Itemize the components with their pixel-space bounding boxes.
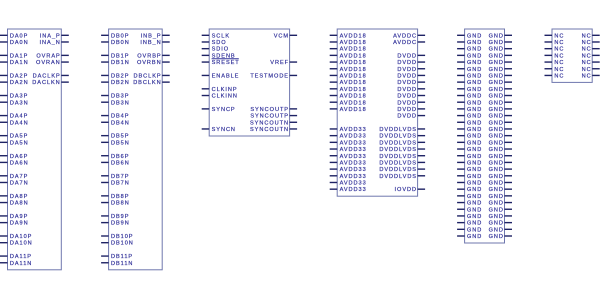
pin INA_P (right row 0) + wire stub bbox=[40, 33, 69, 39]
pin DA4P (left row 12) + wire stub bbox=[0, 114, 28, 120]
svg-text:DB2P: DB2P bbox=[111, 73, 129, 79]
svg-text:INB_N: INB_N bbox=[140, 40, 161, 46]
svg-text:DA9P: DA9P bbox=[10, 214, 28, 220]
svg-text:GND: GND bbox=[467, 67, 482, 73]
svg-text:GND: GND bbox=[467, 214, 482, 220]
svg-text:DA6N: DA6N bbox=[10, 160, 29, 166]
svg-text:GND: GND bbox=[489, 207, 504, 213]
svg-text:AVDD33: AVDD33 bbox=[340, 147, 367, 153]
svg-text:GND: GND bbox=[467, 221, 482, 227]
pin SYNCOUTP (right row 11) + wire stub bbox=[250, 107, 297, 113]
svg-text:DVDD: DVDD bbox=[397, 87, 417, 93]
svg-text:DB4P: DB4P bbox=[111, 114, 129, 120]
svg-text:DA1P: DA1P bbox=[10, 53, 28, 59]
svg-text:DA10N: DA10N bbox=[10, 241, 33, 247]
pin NC (left row 5) + wire stub bbox=[545, 67, 565, 73]
pin DVDD (right row 8) + wire stub bbox=[397, 87, 425, 93]
pin OVRBP (right row 3) + wire stub bbox=[137, 53, 169, 59]
pin DA8P (left row 24) + wire stub bbox=[0, 194, 28, 200]
svg-text:DB2N: DB2N bbox=[111, 80, 130, 86]
svg-text:DBCLKP: DBCLKP bbox=[134, 73, 162, 79]
pin SDENB (left row 3) + wire stub bbox=[202, 53, 236, 59]
pin DB2N (left row 7) + wire stub bbox=[101, 80, 130, 86]
pin GND (right row 25) + wire stub bbox=[489, 201, 512, 207]
svg-text:AVDD33: AVDD33 bbox=[340, 167, 367, 173]
svg-text:AVDD18: AVDD18 bbox=[340, 60, 367, 66]
pin GND (left row 10) + wire stub bbox=[457, 100, 482, 106]
svg-text:GND: GND bbox=[467, 154, 482, 160]
pin GND (left row 9) + wire stub bbox=[457, 94, 482, 100]
svg-text:GND: GND bbox=[489, 53, 504, 59]
svg-text:NC: NC bbox=[554, 47, 564, 53]
svg-text:AVDD18: AVDD18 bbox=[340, 107, 367, 113]
svg-text:DVDD: DVDD bbox=[397, 73, 417, 79]
svg-text:DVDDLVDS: DVDDLVDS bbox=[379, 134, 417, 140]
svg-text:NC: NC bbox=[554, 33, 564, 39]
svg-text:DB3P: DB3P bbox=[111, 94, 129, 100]
svg-text:GND: GND bbox=[489, 127, 504, 133]
IC body U1E ground bbox=[465, 29, 505, 243]
pin AVDD18 (left row 5) + wire stub bbox=[330, 67, 367, 73]
pin DB4P (left row 12) + wire stub bbox=[101, 114, 129, 120]
svg-text:GND: GND bbox=[489, 140, 504, 146]
pin AVDD18 (left row 11) + wire stub bbox=[330, 107, 367, 113]
pin AVDD33 (left row 22) + wire stub bbox=[330, 181, 367, 187]
svg-text:DB8N: DB8N bbox=[111, 201, 130, 207]
pin GND (left row 18) + wire stub bbox=[457, 154, 482, 160]
svg-text:DVDDLVDS: DVDDLVDS bbox=[379, 127, 417, 133]
svg-text:GND: GND bbox=[467, 33, 482, 39]
IC body U1A data port A bbox=[8, 29, 62, 270]
pin GND (right row 26) + wire stub bbox=[489, 207, 512, 213]
pin GND (right row 12) + wire stub bbox=[489, 114, 512, 120]
pin SYNCP (left row 11) + wire stub bbox=[202, 107, 236, 113]
pin GND (left row 20) + wire stub bbox=[457, 167, 482, 173]
pin GND (left row 11) + wire stub bbox=[457, 107, 482, 113]
svg-text:GND: GND bbox=[489, 234, 504, 240]
svg-text:DB5N: DB5N bbox=[111, 140, 130, 146]
pin SDIO (left row 2) + wire stub bbox=[202, 47, 229, 53]
svg-text:DVDDLVDS: DVDDLVDS bbox=[379, 147, 417, 153]
pin DB1P (left row 3) + wire stub bbox=[101, 53, 129, 59]
svg-text:SCLK: SCLK bbox=[212, 33, 230, 39]
pin DBCLKP (right row 6) + wire stub bbox=[134, 73, 170, 79]
svg-text:GND: GND bbox=[467, 53, 482, 59]
pin DVDD (right row 11) + wire stub bbox=[397, 107, 425, 113]
svg-text:DB3N: DB3N bbox=[111, 100, 130, 106]
svg-text:GND: GND bbox=[489, 67, 504, 73]
pin DVDDLVDS (right row 19) + wire stub bbox=[379, 160, 425, 166]
pin VCM (right row 0) + wire stub bbox=[274, 33, 297, 39]
svg-text:DA0P: DA0P bbox=[10, 33, 28, 39]
svg-text:DA9N: DA9N bbox=[10, 221, 29, 227]
pin GND (right row 19) + wire stub bbox=[489, 160, 512, 166]
pin NC (right row 1) + wire stub bbox=[582, 40, 600, 46]
pin AVDD18 (left row 8) + wire stub bbox=[330, 87, 367, 93]
pin GND (left row 23) + wire stub bbox=[457, 187, 482, 193]
svg-text:GND: GND bbox=[489, 114, 504, 120]
pin DA0N (left row 1) + wire stub bbox=[0, 40, 29, 46]
pin CLKINP (left row 8) + wire stub bbox=[202, 87, 238, 93]
svg-text:SYNCN: SYNCN bbox=[212, 127, 236, 133]
svg-text:DVDDLVDS: DVDDLVDS bbox=[379, 167, 417, 173]
svg-text:GND: GND bbox=[489, 154, 504, 160]
svg-text:DB10P: DB10P bbox=[111, 234, 133, 240]
pin SRESET (left row 4) + wire stub bbox=[202, 59, 240, 66]
pin GND (left row 5) + wire stub bbox=[457, 67, 482, 73]
pin GND (right row 9) + wire stub bbox=[489, 94, 512, 100]
pin DB7N (left row 22) + wire stub bbox=[101, 181, 130, 187]
svg-text:GND: GND bbox=[489, 94, 504, 100]
svg-text:DA5N: DA5N bbox=[10, 140, 29, 146]
svg-text:DB1N: DB1N bbox=[111, 60, 130, 66]
pin GND (left row 12) + wire stub bbox=[457, 114, 482, 120]
svg-text:GND: GND bbox=[489, 60, 504, 66]
svg-text:DA8P: DA8P bbox=[10, 194, 28, 200]
pin AVDD18 (left row 2) + wire stub bbox=[330, 47, 367, 53]
pin AVDD33 (left row 18) + wire stub bbox=[330, 154, 367, 160]
pin DVDDLVDS (right row 20) + wire stub bbox=[379, 167, 425, 173]
svg-text:GND: GND bbox=[489, 227, 504, 233]
pin GND (left row 15) + wire stub bbox=[457, 134, 482, 140]
svg-text:AVDD18: AVDD18 bbox=[340, 87, 367, 93]
svg-text:DA4P: DA4P bbox=[10, 114, 28, 120]
pin GND (right row 18) + wire stub bbox=[489, 154, 512, 160]
pin GND (right row 24) + wire stub bbox=[489, 194, 512, 200]
svg-text:GND: GND bbox=[467, 227, 482, 233]
svg-text:IOVDD: IOVDD bbox=[395, 187, 417, 193]
svg-text:AVDD18: AVDD18 bbox=[340, 47, 367, 53]
pin DB11N (left row 34) + wire stub bbox=[101, 261, 133, 267]
svg-text:VCM: VCM bbox=[274, 33, 289, 39]
pin INB_P (right row 0) + wire stub bbox=[141, 33, 170, 39]
pin DB10P (left row 30) + wire stub bbox=[101, 234, 133, 240]
pin DA9P (left row 27) + wire stub bbox=[0, 214, 28, 220]
svg-text:NC: NC bbox=[554, 53, 564, 59]
svg-text:NC: NC bbox=[554, 40, 564, 46]
svg-text:NC: NC bbox=[554, 67, 564, 73]
svg-text:DA1N: DA1N bbox=[10, 60, 29, 66]
pin NC (left row 3) + wire stub bbox=[545, 53, 565, 59]
pin GND (right row 27) + wire stub bbox=[489, 214, 512, 220]
pin ENABLE (left row 6) + wire stub bbox=[202, 73, 240, 79]
pin DA3N (left row 10) + wire stub bbox=[0, 100, 29, 106]
svg-text:DA4N: DA4N bbox=[10, 120, 29, 126]
svg-text:GND: GND bbox=[467, 120, 482, 126]
pin DA6N (left row 19) + wire stub bbox=[0, 160, 29, 166]
pin DB1N (left row 4) + wire stub bbox=[101, 60, 130, 66]
pin AVDD18 (left row 3) + wire stub bbox=[330, 53, 367, 59]
svg-text:DA3N: DA3N bbox=[10, 100, 29, 106]
pin DB3N (left row 10) + wire stub bbox=[101, 100, 130, 106]
pin NC (right row 6) + wire stub bbox=[582, 73, 600, 79]
svg-text:DA8N: DA8N bbox=[10, 201, 29, 207]
pin VREF (right row 4) + wire stub bbox=[270, 60, 297, 66]
svg-text:NC: NC bbox=[582, 40, 592, 46]
pin INA_N (right row 1) + wire stub bbox=[39, 40, 68, 46]
pin DA2N (left row 7) + wire stub bbox=[0, 80, 29, 86]
svg-text:GND: GND bbox=[467, 87, 482, 93]
pin DVDD (right row 3) + wire stub bbox=[397, 53, 425, 59]
pin INB_N (right row 1) + wire stub bbox=[140, 40, 169, 46]
pin AVDD33 (left row 23) + wire stub bbox=[330, 187, 367, 193]
svg-text:GND: GND bbox=[467, 181, 482, 187]
pin DVDD (right row 12) + wire stub bbox=[397, 114, 425, 120]
pin AVDD33 (left row 16) + wire stub bbox=[330, 140, 367, 146]
svg-text:GND: GND bbox=[467, 207, 482, 213]
svg-text:DVDDLVDS: DVDDLVDS bbox=[379, 174, 417, 180]
pin AVDD18 (left row 6) + wire stub bbox=[330, 73, 367, 79]
pin DA11N (left row 34) + wire stub bbox=[0, 261, 32, 267]
pin DA5P (left row 15) + wire stub bbox=[0, 134, 28, 140]
svg-text:GND: GND bbox=[467, 80, 482, 86]
svg-text:AVDD18: AVDD18 bbox=[340, 100, 367, 106]
svg-text:DB6P: DB6P bbox=[111, 154, 129, 160]
svg-text:DA11P: DA11P bbox=[10, 254, 32, 260]
svg-text:OVRAP: OVRAP bbox=[36, 53, 60, 59]
pin GND (right row 10) + wire stub bbox=[489, 100, 512, 106]
svg-text:GND: GND bbox=[467, 60, 482, 66]
svg-text:GND: GND bbox=[489, 107, 504, 113]
pin DB6N (left row 19) + wire stub bbox=[101, 160, 130, 166]
svg-text:DVDD: DVDD bbox=[397, 107, 417, 113]
pin GND (right row 30) + wire stub bbox=[489, 234, 512, 240]
pin DB8P (left row 24) + wire stub bbox=[101, 194, 129, 200]
svg-text:AVDD33: AVDD33 bbox=[340, 154, 367, 160]
svg-text:DA3P: DA3P bbox=[10, 94, 28, 100]
pin NC (right row 4) + wire stub bbox=[582, 60, 600, 66]
svg-text:NC: NC bbox=[582, 73, 592, 79]
svg-text:GND: GND bbox=[467, 140, 482, 146]
pin GND (left row 2) + wire stub bbox=[457, 47, 482, 53]
svg-text:GND: GND bbox=[489, 187, 504, 193]
pin DB0N (left row 1) + wire stub bbox=[101, 40, 130, 46]
svg-text:GND: GND bbox=[489, 221, 504, 227]
svg-text:DVDD: DVDD bbox=[397, 94, 417, 100]
svg-text:AVDD18: AVDD18 bbox=[340, 53, 367, 59]
svg-text:SYNCOUTP: SYNCOUTP bbox=[250, 114, 289, 120]
svg-text:GND: GND bbox=[467, 201, 482, 207]
pin GND (right row 1) + wire stub bbox=[489, 40, 512, 46]
pin DB3P (left row 9) + wire stub bbox=[101, 94, 129, 100]
pin NC (left row 4) + wire stub bbox=[545, 60, 565, 66]
svg-text:DVDD: DVDD bbox=[397, 53, 417, 59]
pin AVDD33 (left row 17) + wire stub bbox=[330, 147, 367, 153]
svg-text:DVDD: DVDD bbox=[397, 60, 417, 66]
pin GND (left row 1) + wire stub bbox=[457, 40, 482, 46]
pin NC (left row 6) + wire stub bbox=[545, 73, 565, 79]
svg-text:DVDDLVDS: DVDDLVDS bbox=[379, 160, 417, 166]
svg-text:GND: GND bbox=[467, 114, 482, 120]
svg-text:DVDD: DVDD bbox=[397, 67, 417, 73]
svg-text:INA_P: INA_P bbox=[40, 33, 61, 39]
svg-text:GND: GND bbox=[467, 167, 482, 173]
pin NC (right row 2) + wire stub bbox=[582, 47, 600, 53]
pin GND (right row 8) + wire stub bbox=[489, 87, 512, 93]
svg-text:GND: GND bbox=[489, 47, 504, 53]
pin DVDD (right row 5) + wire stub bbox=[397, 67, 425, 73]
pin DVDDLVDS (right row 14) + wire stub bbox=[379, 127, 425, 133]
pin AVDDC (right row 1) + wire stub bbox=[393, 40, 425, 46]
svg-text:GND: GND bbox=[489, 87, 504, 93]
pin GND (left row 21) + wire stub bbox=[457, 174, 482, 180]
pin SCLK (left row 0) + wire stub bbox=[202, 33, 230, 39]
pin AVDD33 (left row 20) + wire stub bbox=[330, 167, 367, 173]
svg-text:GND: GND bbox=[489, 194, 504, 200]
svg-text:AVDD18: AVDD18 bbox=[340, 73, 367, 79]
pin DVDDLVDS (right row 17) + wire stub bbox=[379, 147, 425, 153]
svg-text:GND: GND bbox=[467, 107, 482, 113]
pin DVDD (right row 7) + wire stub bbox=[397, 80, 425, 86]
pin SDO (left row 1) + wire stub bbox=[202, 40, 227, 46]
svg-text:DA5P: DA5P bbox=[10, 134, 28, 140]
IC body U1D power bbox=[337, 29, 417, 196]
svg-text:GND: GND bbox=[467, 73, 482, 79]
pin GND (right row 23) + wire stub bbox=[489, 187, 512, 193]
svg-text:AVDDC: AVDDC bbox=[393, 33, 417, 39]
svg-text:DVDD: DVDD bbox=[397, 80, 417, 86]
svg-text:SYNCOUTP: SYNCOUTP bbox=[250, 107, 289, 113]
svg-text:AVDD33: AVDD33 bbox=[340, 174, 367, 180]
svg-text:SYNCOUTN: SYNCOUTN bbox=[250, 120, 289, 126]
svg-text:SDO: SDO bbox=[212, 40, 227, 46]
pin DA2P (left row 6) + wire stub bbox=[0, 73, 28, 79]
pin DA10N (left row 31) + wire stub bbox=[0, 241, 33, 247]
svg-text:DB7N: DB7N bbox=[111, 181, 130, 187]
pin GND (right row 14) + wire stub bbox=[489, 127, 512, 133]
pin GND (left row 27) + wire stub bbox=[457, 214, 482, 220]
pin GND (left row 6) + wire stub bbox=[457, 73, 482, 79]
pin GND (left row 13) + wire stub bbox=[457, 120, 482, 126]
pin AVDD33 (left row 15) + wire stub bbox=[330, 134, 367, 140]
pin GND (right row 7) + wire stub bbox=[489, 80, 512, 86]
pin GND (left row 17) + wire stub bbox=[457, 147, 482, 153]
svg-text:GND: GND bbox=[489, 80, 504, 86]
pin DACLKN (right row 7) + wire stub bbox=[32, 80, 69, 86]
svg-text:INA_N: INA_N bbox=[39, 40, 60, 46]
svg-text:GND: GND bbox=[489, 160, 504, 166]
svg-text:AVDD18: AVDD18 bbox=[340, 40, 367, 46]
pin DB11P (left row 33) + wire stub bbox=[101, 254, 133, 260]
svg-text:DA6P: DA6P bbox=[10, 154, 28, 160]
pin DB2P (left row 6) + wire stub bbox=[101, 73, 129, 79]
pin AVDD18 (left row 1) + wire stub bbox=[330, 40, 367, 46]
pin DVDDLVDS (right row 21) + wire stub bbox=[379, 174, 425, 180]
svg-text:DBCLKN: DBCLKN bbox=[133, 80, 161, 86]
svg-text:DVDD: DVDD bbox=[397, 100, 417, 106]
pin AVDD18 (left row 10) + wire stub bbox=[330, 100, 367, 106]
svg-text:DB11N: DB11N bbox=[111, 261, 133, 267]
svg-text:DA10P: DA10P bbox=[10, 234, 32, 240]
svg-text:GND: GND bbox=[489, 33, 504, 39]
svg-text:VREF: VREF bbox=[270, 60, 289, 66]
svg-text:GND: GND bbox=[467, 194, 482, 200]
pin DVDD (right row 4) + wire stub bbox=[397, 60, 425, 66]
svg-text:DA2N: DA2N bbox=[10, 80, 29, 86]
svg-text:GND: GND bbox=[467, 147, 482, 153]
svg-text:AVDD18: AVDD18 bbox=[340, 33, 367, 39]
pin DB8N (left row 25) + wire stub bbox=[101, 201, 130, 207]
pin GND (left row 29) + wire stub bbox=[457, 227, 482, 233]
pin GND (right row 22) + wire stub bbox=[489, 181, 512, 187]
pin GND (left row 14) + wire stub bbox=[457, 127, 482, 133]
pin GND (right row 3) + wire stub bbox=[489, 53, 512, 59]
svg-text:GND: GND bbox=[489, 100, 504, 106]
pin NC (right row 5) + wire stub bbox=[582, 67, 600, 73]
svg-text:DVDDLVDS: DVDDLVDS bbox=[379, 140, 417, 146]
svg-text:GND: GND bbox=[489, 120, 504, 126]
pin GND (left row 22) + wire stub bbox=[457, 181, 482, 187]
pin DVDDLVDS (right row 18) + wire stub bbox=[379, 154, 425, 160]
pin DA4N (left row 13) + wire stub bbox=[0, 120, 29, 126]
svg-text:CLKINN: CLKINN bbox=[212, 94, 238, 100]
svg-text:OVRBP: OVRBP bbox=[137, 53, 161, 59]
svg-text:GND: GND bbox=[489, 214, 504, 220]
pin GND (right row 17) + wire stub bbox=[489, 147, 512, 153]
svg-text:DB10N: DB10N bbox=[111, 241, 134, 247]
IC body U1F no-connect bbox=[552, 29, 592, 82]
svg-text:NC: NC bbox=[582, 47, 592, 53]
svg-text:INB_P: INB_P bbox=[141, 33, 162, 39]
pin OVRBN (right row 4) + wire stub bbox=[137, 60, 170, 66]
svg-text:DB0P: DB0P bbox=[111, 33, 129, 39]
pin DVDDLVDS (right row 15) + wire stub bbox=[379, 134, 425, 140]
pin TESTMODE (right row 6) + wire stub bbox=[250, 73, 297, 79]
svg-text:GND: GND bbox=[467, 127, 482, 133]
pin GND (right row 6) + wire stub bbox=[489, 73, 512, 79]
pin GND (right row 13) + wire stub bbox=[489, 120, 512, 126]
pin GND (left row 24) + wire stub bbox=[457, 194, 482, 200]
svg-text:GND: GND bbox=[467, 100, 482, 106]
svg-text:SDIO: SDIO bbox=[212, 47, 229, 53]
svg-text:GND: GND bbox=[467, 47, 482, 53]
svg-text:AVDD33: AVDD33 bbox=[340, 181, 367, 187]
pin GND (right row 20) + wire stub bbox=[489, 167, 512, 173]
pin GND (left row 19) + wire stub bbox=[457, 160, 482, 166]
svg-text:DB8P: DB8P bbox=[111, 194, 129, 200]
svg-text:SRESET: SRESET bbox=[212, 60, 240, 66]
svg-text:AVDD33: AVDD33 bbox=[340, 134, 367, 140]
svg-text:GND: GND bbox=[467, 234, 482, 240]
svg-text:TESTMODE: TESTMODE bbox=[250, 73, 289, 79]
pin DA7N (left row 22) + wire stub bbox=[0, 181, 29, 187]
pin AVDD18 (left row 4) + wire stub bbox=[330, 60, 367, 66]
pin GND (left row 16) + wire stub bbox=[457, 140, 482, 146]
svg-text:CLKINP: CLKINP bbox=[212, 87, 238, 93]
svg-text:GND: GND bbox=[467, 94, 482, 100]
pin SYNCN (left row 14) + wire stub bbox=[202, 127, 236, 133]
svg-text:GND: GND bbox=[467, 174, 482, 180]
pin GND (right row 0) + wire stub bbox=[489, 33, 512, 39]
svg-text:DB7P: DB7P bbox=[111, 174, 129, 180]
svg-text:AVDDC: AVDDC bbox=[393, 40, 417, 46]
pin OVRAP (right row 3) + wire stub bbox=[36, 53, 68, 59]
IC body U1B data port B bbox=[109, 29, 163, 270]
pin DACLKP (right row 6) + wire stub bbox=[33, 73, 69, 79]
pin NC (left row 1) + wire stub bbox=[545, 40, 565, 46]
svg-text:GND: GND bbox=[489, 147, 504, 153]
pin AVDD33 (left row 14) + wire stub bbox=[330, 127, 367, 133]
pin DA6P (left row 18) + wire stub bbox=[0, 154, 28, 160]
pin CLKINN (left row 9) + wire stub bbox=[202, 94, 238, 100]
svg-text:DA0N: DA0N bbox=[10, 40, 29, 46]
pin DA10P (left row 30) + wire stub bbox=[0, 234, 32, 240]
svg-text:AVDD33: AVDD33 bbox=[340, 127, 367, 133]
pin DB7P (left row 21) + wire stub bbox=[101, 174, 129, 180]
svg-text:NC: NC bbox=[582, 67, 592, 73]
pin DB4N (left row 13) + wire stub bbox=[101, 120, 130, 126]
svg-text:DA2P: DA2P bbox=[10, 73, 28, 79]
